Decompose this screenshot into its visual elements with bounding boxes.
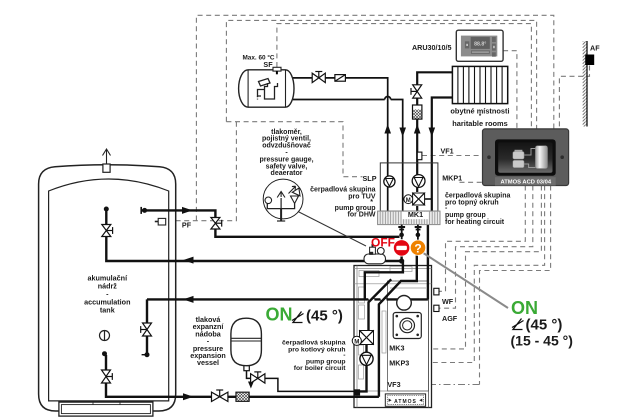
svg-text:tank: tank — [100, 306, 115, 315]
svg-text:pro kotlový okruh: pro kotlový okruh — [288, 347, 345, 354]
svg-text:SF: SF — [263, 60, 273, 69]
svg-text:AF: AF — [590, 44, 600, 53]
svg-text:ATMOS: ATMOS — [394, 399, 417, 405]
svg-text:for heating circuit: for heating circuit — [445, 219, 505, 226]
svg-text:M: M — [354, 339, 359, 346]
svg-text:M: M — [406, 198, 411, 204]
svg-text:VF1: VF1 — [441, 147, 454, 156]
svg-text:88.8°: 88.8° — [474, 42, 486, 48]
svg-text:MK3: MK3 — [389, 343, 404, 352]
svg-text:deaerator: deaerator — [271, 170, 303, 177]
svg-text:AGF: AGF — [442, 314, 458, 323]
svg-text:PF: PF — [182, 221, 192, 230]
svg-text:for boiler circuit: for boiler circuit — [294, 365, 346, 372]
svg-text:(45 °): (45 °) — [306, 308, 343, 325]
svg-text:čerpadlová skupina: čerpadlová skupina — [282, 340, 346, 347]
svg-text:čerpadlová skupina: čerpadlová skupina — [310, 186, 375, 193]
svg-text:-: - — [285, 149, 288, 156]
svg-text:for DHW: for DHW — [348, 212, 376, 219]
svg-text:(45 °): (45 °) — [526, 317, 563, 334]
svg-text:MKP3: MKP3 — [389, 358, 409, 367]
svg-text:SLP: SLP — [363, 174, 377, 183]
svg-text:?: ? — [414, 241, 421, 255]
svg-text:haritable rooms: haritable rooms — [452, 119, 507, 128]
svg-text:MKP1: MKP1 — [442, 174, 462, 183]
svg-text:WF: WF — [442, 297, 454, 306]
svg-text:(15 - 45 °): (15 - 45 °) — [511, 333, 573, 349]
svg-text:ATMOS ACD 03/04: ATMOS ACD 03/04 — [501, 180, 552, 186]
svg-text:čerpadlová skupina: čerpadlová skupina — [445, 193, 510, 200]
svg-text:pro topný okruh: pro topný okruh — [445, 200, 499, 207]
svg-text:MK1: MK1 — [408, 210, 423, 219]
svg-text:vessel: vessel — [197, 358, 219, 367]
svg-text:ON: ON — [511, 298, 538, 318]
svg-text:ARU30/10/5: ARU30/10/5 — [412, 43, 452, 52]
svg-text:ON: ON — [266, 305, 293, 325]
svg-text:OFF: OFF — [371, 236, 395, 250]
svg-text:VF3: VF3 — [387, 380, 400, 389]
